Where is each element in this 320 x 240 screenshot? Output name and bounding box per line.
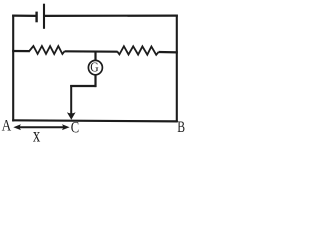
- wire: jockey vertical drop: [70, 85, 72, 114]
- wire: left vertical side: [12, 15, 14, 122]
- svg-text:B: B: [177, 119, 185, 136]
- wire: galvanometer bottom stub: [94, 75, 96, 87]
- wire: top side, left segment to battery: [12, 15, 36, 17]
- svg-text:x: x: [33, 125, 40, 144]
- dimension arrow shaft A to C: [17, 126, 67, 128]
- svg-text:C: C: [71, 120, 79, 137]
- wire: middle left stub: [12, 50, 30, 52]
- wire: right vertical side: [176, 15, 178, 122]
- wire: top side, right segment from battery: [44, 15, 178, 17]
- wire: jockey horizontal run: [70, 85, 96, 87]
- svg-text:G: G: [90, 59, 99, 74]
- battery cell: short plate: [35, 12, 37, 23]
- dimension arrowhead right: [62, 124, 70, 130]
- wire: middle right stub: [159, 51, 178, 54]
- wire: galvanometer top stub: [94, 51, 96, 61]
- wire: bottom side A to B: [12, 120, 178, 121]
- galvanometer G circle: [88, 60, 102, 74]
- resistor R2 (right zigzag): [117, 46, 158, 55]
- dimension arrowhead left: [13, 124, 21, 130]
- battery cell: long plate: [43, 4, 45, 29]
- jockey contact arrowhead at C: [67, 112, 76, 120]
- resistor R1 (left zigzag): [29, 46, 64, 54]
- svg-text:A: A: [2, 118, 12, 135]
- wire: middle center segment: [65, 50, 118, 53]
